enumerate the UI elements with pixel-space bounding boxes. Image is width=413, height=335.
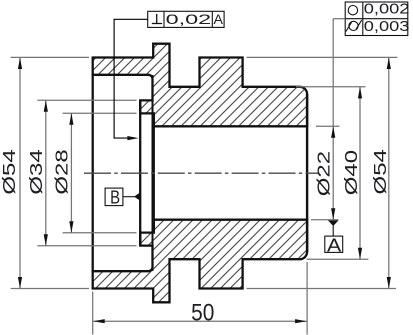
- svg-text:A: A: [213, 11, 223, 27]
- part section lower half (hatched): [93, 220, 307, 303]
- dimension dia40 right: [296, 87, 368, 259]
- svg-text:Ø34: Ø34: [27, 149, 47, 195]
- dimension dia28 left: [52, 113, 136, 232]
- svg-text:Ø40: Ø40: [342, 150, 362, 195]
- svg-text:A: A: [327, 236, 342, 256]
- visible edge: lip bore dia28 (perpendicularity / datum B face): [139, 100, 141, 245]
- visible edge: right face through bore: [306, 94, 308, 252]
- dimension 50 bottom: [93, 262, 307, 335]
- centerline (axis, dash-dot): [84, 172, 320, 174]
- svg-text:B: B: [110, 187, 120, 208]
- dimension dia54 right: [247, 57, 398, 288]
- svg-text:50: 50: [191, 299, 214, 326]
- visible edge: recess bottom dia34: [152, 75, 154, 271]
- datum A (dia22 bore axis): [325, 220, 343, 256]
- dimension dia22 right (datum A feature): [311, 19, 340, 220]
- dimension dia54 left: [0, 57, 89, 288]
- svg-text:0,003: 0,003: [364, 19, 410, 35]
- svg-text:Ø54: Ø54: [0, 149, 19, 195]
- svg-text:Ø28: Ø28: [52, 149, 72, 194]
- svg-text:Ø22: Ø22: [314, 151, 334, 196]
- part section upper half (hatched): [93, 44, 307, 127]
- feature control frame: perpendicularity 0,02 A: [148, 11, 224, 27]
- svg-text:0,002: 0,002: [364, 1, 410, 17]
- visible edge: recess mouth at left face: [92, 74, 94, 272]
- svg-text:Ø54: Ø54: [371, 149, 391, 195]
- dimension dia34 left: [27, 100, 137, 245]
- datum B (lip face): [105, 187, 140, 208]
- svg-text:0,02: 0,02: [166, 13, 212, 28]
- feature control frame: circularity 0,002 / cylindricity 0,003: [345, 1, 409, 35]
- leader from circularity frame to dia22 dimension line: [333, 18, 345, 20]
- visible edge: bore shoulder dia22: [153, 113, 155, 232]
- leader from perpendicularity frame to lip face: [114, 19, 148, 140]
